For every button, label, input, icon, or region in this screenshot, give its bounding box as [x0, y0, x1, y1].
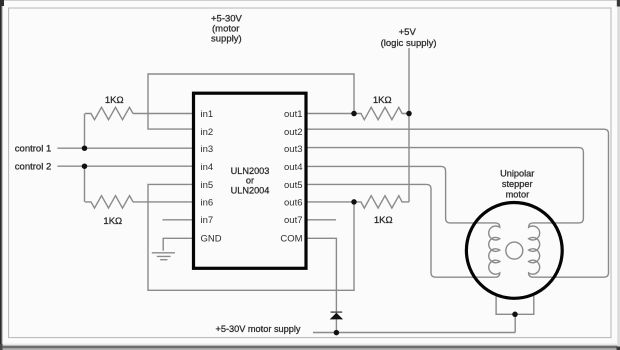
svg-text:ULN2004: ULN2004 — [231, 186, 270, 196]
screenshot edge artifacts — [0, 344, 620, 346]
wire out1 to R3 — [305, 113, 354, 115]
svg-text:supply): supply) — [211, 34, 242, 45]
wire COM to diode to rail — [305, 238, 336, 332]
wire in7 stub — [163, 219, 194, 221]
wire out6 to R4 — [305, 201, 354, 203]
wire out3 to motor right-top coil — [305, 148, 583, 223]
coil left (winding A) — [489, 223, 500, 277]
svg-text:out7: out7 — [284, 215, 303, 226]
svg-text:1KΩ: 1KΩ — [373, 95, 392, 106]
coil right (winding B) — [529, 223, 540, 277]
wire out7 stub — [305, 219, 336, 221]
svg-text:1KΩ: 1KΩ — [103, 216, 122, 227]
svg-text:out2: out2 — [284, 127, 303, 138]
wire motor supply rail — [313, 332, 515, 334]
svg-text:stepper: stepper — [502, 179, 533, 189]
motor M1 circle — [466, 203, 562, 299]
wire in5 to out6 node (bottom loop) — [148, 184, 354, 290]
wire center tap to rail — [514, 314, 516, 332]
node center tap junction — [512, 312, 518, 318]
wire R2 to in6 — [133, 201, 194, 203]
diode D1 — [330, 312, 343, 319]
svg-text:out4: out4 — [284, 162, 303, 173]
wire control1 to in3 — [57, 147, 193, 149]
resistor R1 1K — [85, 107, 133, 119]
wire out2 to motor right-bottom coil — [305, 129, 609, 277]
svg-text:in5: in5 — [201, 180, 214, 191]
svg-text:out6: out6 — [284, 197, 303, 208]
svg-text:out5: out5 — [284, 180, 303, 191]
resistor R3 1K — [354, 107, 409, 119]
node out1 junction — [351, 111, 357, 117]
svg-text:ULN2003: ULN2003 — [231, 166, 270, 176]
wire R1 to in1 — [133, 113, 194, 115]
svg-text:1KΩ: 1KΩ — [374, 215, 393, 226]
resistor R2 1K — [85, 196, 133, 208]
svg-text:in3: in3 — [201, 144, 214, 155]
node +5V junction — [406, 111, 412, 117]
motor terminal box — [496, 295, 534, 314]
node out6 junction — [351, 199, 357, 205]
svg-text:motor: motor — [506, 190, 530, 200]
wire control2 to in4 — [57, 165, 193, 167]
resistor R4 1K — [354, 196, 409, 208]
svg-text:out3: out3 — [284, 144, 303, 155]
svg-text:GND: GND — [201, 234, 222, 245]
svg-text:in1: in1 — [201, 109, 214, 120]
svg-text:in7: in7 — [201, 215, 214, 226]
IC U1 ULN2003 — [194, 93, 307, 268]
svg-text:in6: in6 — [201, 197, 214, 208]
wire GND pin to ground — [163, 238, 193, 251]
wire out1 node to in2 (top loop) — [148, 74, 354, 129]
svg-text:out1: out1 — [284, 109, 303, 120]
svg-text:in2: in2 — [201, 127, 214, 138]
wire control1 junction up to R1 — [84, 114, 86, 149]
wire out5 to motor left-bottom coil — [305, 184, 495, 277]
svg-text:(logic supply): (logic supply) — [381, 38, 437, 49]
svg-text:control 1: control 1 — [15, 144, 51, 155]
wire out4 to motor left-top coil — [305, 166, 495, 223]
node control1 junction — [82, 145, 88, 151]
svg-text:control 2: control 2 — [15, 162, 51, 173]
node control2 junction — [82, 163, 88, 169]
wire control2 junction down to R2 — [84, 166, 86, 202]
svg-text:COM: COM — [280, 234, 302, 245]
svg-text:+5-30V motor supply: +5-30V motor supply — [215, 324, 300, 334]
svg-text:or: or — [246, 176, 254, 186]
svg-text:1KΩ: 1KΩ — [105, 95, 124, 106]
svg-text:+5V: +5V — [399, 27, 417, 38]
ground — [152, 253, 175, 260]
svg-text:Unipolar: Unipolar — [500, 169, 534, 179]
motor shaft circle — [506, 242, 523, 259]
svg-text:in4: in4 — [201, 162, 214, 173]
node diode junction — [334, 330, 340, 336]
wire +5V rail — [408, 48, 410, 202]
